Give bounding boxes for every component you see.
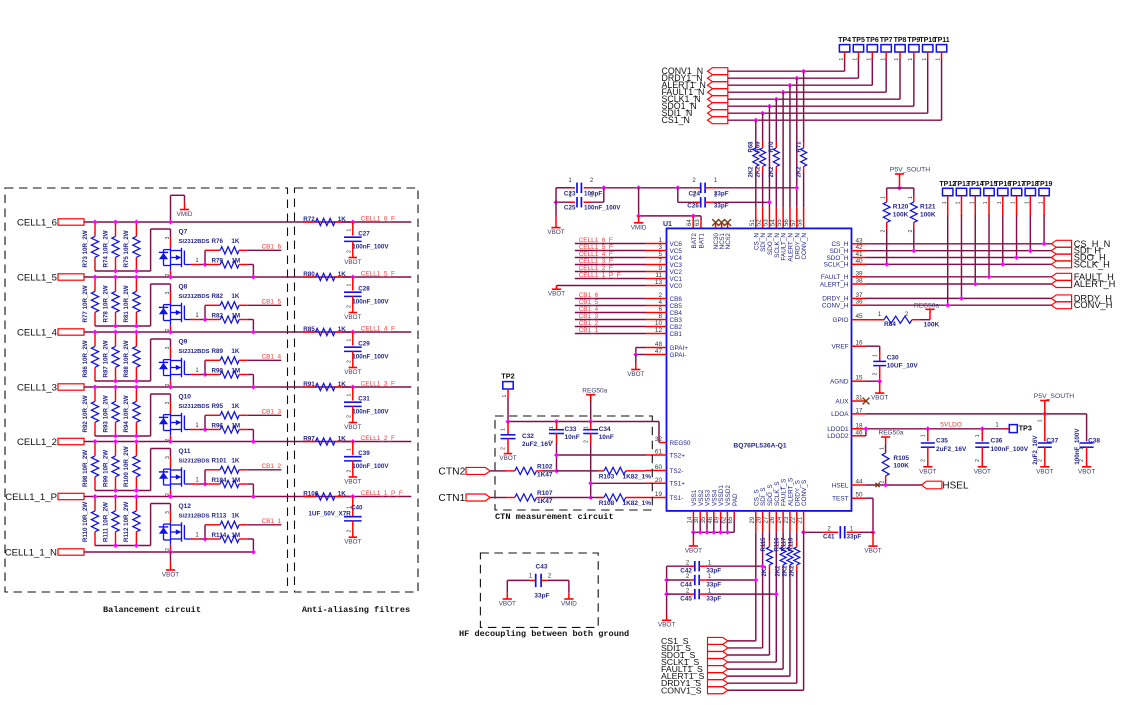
capacitor C38 100nF_100V (1086, 440, 1088, 442)
svg-text:R120: R120 (893, 204, 909, 211)
svg-text:2K2: 2K2 (769, 166, 775, 178)
svg-text:R98 10R_2W: R98 10R_2W (82, 450, 89, 487)
capacitor C39 (352, 442, 354, 456)
pin CS_H (43) (852, 243, 867, 245)
junction R74 top (113, 220, 118, 225)
pin LDOD1 (18) (852, 428, 867, 430)
wire CS1_N to TP11 (728, 119, 942, 121)
wire HSEL row (866, 484, 922, 486)
svg-text:CB1_5: CB1_5 (262, 299, 282, 306)
wire to net CB1_3 (248, 414, 282, 416)
pin HSEL (44) (852, 484, 867, 486)
svg-text:VBOT: VBOT (344, 479, 361, 486)
ground VBOT GPAI (635, 355, 637, 363)
junction VMID rail (601, 185, 606, 190)
resistor R80 1K (303, 276, 316, 278)
svg-text:1K: 1K (231, 512, 240, 519)
svg-text:10: 10 (655, 320, 663, 327)
wire resistor-bottom bus row 2 (95, 325, 151, 327)
junction TS1+/C34 (588, 481, 593, 486)
resistor R116 2K2 (780, 547, 786, 565)
junction C40 tap (350, 494, 355, 499)
wire R104 to CELL1_1_P (248, 483, 254, 485)
wire resistor-bottom bus row 6 (95, 545, 151, 547)
pin CB2 (10) (646, 326, 667, 328)
svg-text:Q7: Q7 (179, 229, 188, 236)
dashed box Anti-aliasing filtres (295, 188, 419, 592)
svg-text:1: 1 (583, 426, 589, 429)
svg-text:TS1-: TS1- (670, 495, 684, 502)
svg-text:HSEL: HSEL (942, 480, 969, 491)
svg-text:57: 57 (791, 219, 797, 226)
svg-text:CELL1_2_F: CELL1_2_F (579, 265, 613, 272)
svg-text:R121: R121 (920, 204, 936, 211)
wire riser DRDY_N (796, 78, 798, 207)
wire net CELL1_3 (84, 386, 353, 388)
junction resistor bus (113, 269, 118, 274)
svg-text:R96: R96 (212, 422, 224, 429)
junction R90 on CELL1_3 (251, 385, 256, 390)
svg-text:CELL1_3_F: CELL1_3_F (579, 258, 613, 265)
svg-text:CB1_5: CB1_5 (579, 299, 599, 306)
wire R96 to CELL1_2 (248, 429, 254, 431)
transistor Q9 SI2312BDS (170, 339, 172, 347)
junction R75 top (134, 220, 139, 225)
svg-text:2: 2 (881, 230, 887, 233)
svg-text:VC0: VC0 (670, 283, 683, 290)
svg-text:3: 3 (165, 402, 171, 405)
wire net CB1_4 to CB pin (575, 312, 646, 314)
wire TP16 drop (1002, 215, 1004, 264)
svg-text:C25: C25 (564, 205, 576, 212)
svg-text:2K2: 2K2 (796, 166, 802, 178)
junction R121 SDI_H (911, 248, 916, 253)
svg-text:R87 10R_2W: R87 10R_2W (102, 340, 109, 377)
svg-text:R80: R80 (303, 271, 315, 278)
svg-text:2: 2 (347, 530, 353, 533)
resistor R70 2K2 (773, 148, 779, 167)
svg-text:Q12: Q12 (179, 503, 192, 510)
svg-text:TP7: TP7 (880, 37, 893, 44)
junction gate Q8 (203, 317, 208, 322)
svg-text:100nF_100V: 100nF_100V (352, 353, 389, 360)
wire C45 to riser (707, 593, 776, 595)
wire net CELL1_4 (84, 331, 353, 333)
svg-text:23: 23 (784, 516, 790, 523)
pin LDOA (17) (852, 413, 867, 415)
junction LDOD1/LDOD2 (863, 426, 868, 431)
resistor R86 10R_2W (94, 332, 96, 346)
pin CB1 (12) (646, 333, 667, 335)
junction resistor bus (113, 324, 118, 329)
ground VBOT C36 (978, 466, 987, 468)
ground VBOT VSS (692, 532, 694, 538)
wire R90 to CELL1_3 (248, 374, 254, 376)
ground VBOT AGND (879, 381, 881, 393)
svg-text:R86 10R_2W: R86 10R_2W (82, 340, 89, 377)
resistor R85 1K (303, 331, 316, 333)
svg-text:NC62: NC62 (725, 233, 732, 250)
svg-text:1: 1 (873, 354, 879, 357)
junction resistor bus (113, 379, 118, 384)
svg-text:2: 2 (975, 459, 981, 462)
svg-text:1K82_1%: 1K82_1% (623, 500, 652, 507)
svg-text:29: 29 (750, 516, 756, 523)
svg-text:SCLK_H: SCLK_H (1074, 259, 1110, 269)
svg-text:TP19: TP19 (1036, 181, 1053, 188)
wire net CB1_1 to CB pin (575, 333, 646, 335)
svg-text:47: 47 (655, 348, 663, 355)
power VMID above Q7 (170, 195, 172, 222)
svg-text:3: 3 (658, 244, 662, 251)
junction TP19 (1042, 241, 1047, 246)
svg-text:1: 1 (956, 201, 962, 204)
wire C42/C44/C45 left rail (666, 566, 668, 614)
svg-text:2K2: 2K2 (789, 565, 795, 577)
wire VSS ground bus (692, 511, 694, 520)
wire net CELL1_5_F (343, 276, 412, 278)
wire TP15 drop (988, 215, 990, 276)
junction gate Q7 (203, 262, 208, 267)
pin BAT1 (63) (700, 220, 702, 228)
svg-text:C35: C35 (936, 438, 948, 445)
svg-text:VBOT: VBOT (547, 229, 564, 236)
wire SDO1_S to port (728, 654, 770, 656)
svg-text:C41: C41 (823, 534, 835, 541)
svg-text:CB1_4: CB1_4 (579, 306, 599, 313)
svg-text:CS1_N: CS1_N (662, 115, 690, 125)
svg-text:C38: C38 (1088, 438, 1100, 445)
junction P5V split (897, 186, 902, 191)
wire net CELL1_4_F to VC pin (575, 257, 646, 259)
svg-text:CONV1_S: CONV1_S (661, 685, 702, 695)
svg-text:5: 5 (658, 251, 662, 258)
wire REG50a drop (590, 402, 592, 422)
svg-text:45: 45 (856, 313, 864, 320)
wire CS1_S to port (728, 640, 756, 642)
pin AGND (15) (852, 380, 867, 382)
wire to net CB1_2 (248, 469, 282, 471)
junction R120 SCLK_H (884, 262, 889, 267)
power VMID C43 (568, 580, 570, 592)
resistor R108 1K82_1% (598, 497, 605, 499)
junction TP15 (987, 274, 992, 279)
junction C25 left (554, 200, 559, 205)
pin TEST (50) (852, 497, 867, 499)
port SDO_H (1051, 254, 1071, 261)
svg-text:VMID: VMID (561, 600, 577, 607)
svg-text:VBOT: VBOT (658, 622, 675, 629)
svg-text:R106: R106 (303, 490, 319, 497)
capacitor C41 33pF (804, 531, 823, 533)
resistor R111 10R_2W (115, 497, 117, 511)
resistor R92 10R_2W (94, 387, 96, 401)
svg-text:CELL1_4: CELL1_4 (17, 327, 58, 338)
resistor R76 1K (205, 249, 220, 251)
svg-text:VBOT: VBOT (864, 547, 881, 554)
capacitor C42 33pF (667, 565, 690, 567)
svg-text:SCLK_H: SCLK_H (824, 262, 849, 269)
junction TS2+/C33 (554, 453, 559, 458)
svg-text:100K: 100K (920, 212, 936, 219)
svg-text:54: 54 (770, 219, 776, 226)
svg-text:1: 1 (839, 58, 845, 61)
junction C45 left (664, 592, 669, 597)
svg-text:R81 10R_2W: R81 10R_2W (123, 285, 130, 322)
pin VC4 (5) (646, 257, 667, 259)
no-connect pins NC30 NC51 NC62 (715, 223, 717, 229)
wire C34 to TS1+ node (590, 444, 592, 498)
svg-text:1: 1 (347, 394, 353, 397)
resistor R91 1K (303, 386, 316, 388)
svg-text:10nF: 10nF (599, 434, 614, 441)
pin SDI_H (42) (852, 250, 867, 252)
svg-text:1: 1 (997, 201, 1003, 204)
svg-text:44: 44 (856, 479, 864, 486)
capacitor C45 33pF (667, 593, 690, 595)
wire C44 to riser (707, 579, 756, 581)
svg-text:BQ76PL536A-Q1: BQ76PL536A-Q1 (733, 443, 786, 450)
svg-text:C28: C28 (358, 285, 370, 292)
svg-text:10nF: 10nF (565, 434, 580, 441)
svg-text:35: 35 (701, 516, 707, 523)
wire net CELL1_6 (84, 221, 353, 223)
wire net CELL1_1_P_F (343, 496, 412, 498)
resistor R112 10R_2W (135, 497, 137, 511)
svg-text:2: 2 (920, 459, 926, 462)
svg-text:12: 12 (655, 327, 663, 334)
junction C44 riser (753, 578, 758, 583)
ground VBOT cap rail (666, 615, 668, 621)
svg-text:CB1_2: CB1_2 (262, 463, 282, 470)
junction C42 riser (760, 564, 765, 569)
wire SCLK1_S to port (728, 661, 776, 663)
ground VBOT C35 (923, 466, 932, 468)
resistor R106 1K (303, 496, 316, 498)
svg-text:100nF_100V: 100nF_100V (352, 408, 389, 415)
svg-text:61: 61 (655, 449, 663, 456)
junction VMID drop (636, 213, 641, 218)
pin TS2- (60) (646, 470, 667, 472)
wire net CB1_2 to CB pin (575, 326, 646, 328)
resistor R114 1M (205, 538, 220, 540)
wire net VMID top rail (556, 187, 575, 189)
svg-text:SI2312BDS: SI2312BDS (179, 458, 210, 464)
junction VMID on CELL1_6 (168, 220, 173, 225)
svg-text:CELL1_3_F: CELL1_3_F (361, 380, 395, 387)
junction C29 tap (350, 330, 355, 335)
svg-text:REG50a: REG50a (914, 302, 939, 309)
svg-text:2: 2 (347, 305, 353, 308)
wire to net CB1_1 (248, 524, 282, 526)
wire FAULT1_S to port (728, 668, 783, 670)
wire gate node Q8 (204, 305, 206, 319)
svg-text:LDOD2: LDOD2 (827, 433, 849, 440)
svg-text:2K2: 2K2 (755, 166, 761, 178)
junction CONV1_N riser (801, 69, 806, 74)
wire GPAI+ / GPAI- (636, 347, 646, 349)
svg-text:19: 19 (655, 491, 663, 498)
svg-text:1K47: 1K47 (537, 472, 553, 479)
wire R79 to CELL1_5 (248, 264, 254, 266)
junction FAULT1_N riser (781, 90, 786, 95)
svg-text:1: 1 (969, 201, 975, 204)
junction Q7 source on CELL1_5 (168, 275, 173, 280)
pin VC0 (13) (646, 285, 667, 287)
svg-text:51: 51 (750, 219, 756, 226)
svg-text:31: 31 (856, 395, 864, 402)
svg-text:CONV_N: CONV_N (801, 233, 808, 260)
svg-text:3: 3 (165, 456, 171, 459)
capacitor C34 10nF (590, 422, 592, 430)
junction gate Q9 (203, 372, 208, 377)
capacitor C32 2uF2_16V (507, 422, 509, 435)
pin GPAI+ (48) (646, 347, 667, 349)
svg-text:SI2312BDS: SI2312BDS (179, 404, 210, 410)
wire net CELL1_5_F to VC pin (575, 250, 646, 252)
svg-text:22: 22 (791, 516, 797, 523)
svg-text:C36: C36 (991, 438, 1003, 445)
svg-text:C40: C40 (351, 504, 363, 511)
svg-text:C33: C33 (565, 426, 577, 433)
resistor R88 10R_2W (135, 332, 137, 346)
junction C44 left (664, 578, 669, 583)
junction DRDY1_N riser (794, 76, 799, 81)
svg-text:AGND: AGND (830, 379, 849, 386)
svg-text:R105: R105 (893, 455, 909, 462)
svg-text:R110 10R_2W: R110 10R_2W (82, 502, 89, 542)
pin stub CS_N (755, 207, 757, 228)
wire SCLK1_N to TP8 (728, 98, 900, 100)
svg-text:R89: R89 (212, 348, 224, 355)
capacitor C23 100pF (556, 187, 570, 189)
svg-text:C26: C26 (687, 203, 699, 210)
svg-text:LDOA: LDOA (831, 411, 849, 418)
svg-text:R75 10R_2W: R75 10R_2W (123, 230, 130, 267)
svg-text:Q8: Q8 (179, 284, 188, 291)
svg-text:CELL1_6: CELL1_6 (17, 217, 57, 228)
svg-text:1UF_50V_X7R: 1UF_50V_X7R (308, 510, 351, 517)
capacitor C37 2uF2_16V (1044, 414, 1046, 442)
transistor Q10 SI2312BDS (170, 394, 172, 402)
svg-text:58: 58 (798, 219, 804, 226)
svg-text:1M: 1M (231, 422, 240, 429)
wire SDI1_N to TP10 (728, 112, 928, 114)
svg-text:CB5: CB5 (670, 303, 683, 310)
svg-text:ALERT_H: ALERT_H (1074, 279, 1116, 289)
junction R105/HSEL (883, 483, 888, 488)
resistor R93 10R_2W (115, 387, 117, 401)
resistor R110 10R_2W (94, 497, 96, 511)
resistor R79 1M (205, 264, 220, 266)
svg-text:1M: 1M (231, 367, 240, 374)
pin stub SCLK_N (775, 207, 777, 228)
svg-text:3: 3 (165, 511, 171, 514)
svg-text:100nF_100V: 100nF_100V (352, 463, 389, 470)
ground VBOT VC0 (556, 286, 558, 290)
svg-text:VMID: VMID (177, 211, 193, 218)
wire net CB1_3 to CB pin (575, 319, 646, 321)
svg-text:33pF: 33pF (847, 534, 862, 541)
capacitor C44 33pF (667, 579, 690, 581)
svg-text:2: 2 (658, 292, 662, 299)
svg-text:64: 64 (687, 219, 693, 226)
svg-text:VC3: VC3 (670, 262, 683, 269)
ground VBOT below Q12 (170, 552, 172, 561)
wire net CELL1_5 (84, 276, 353, 278)
svg-text:VBOT: VBOT (344, 369, 361, 376)
junction R110 top (93, 494, 98, 499)
junction SCLK1_N riser (774, 97, 779, 102)
wire SCLK_H row (866, 263, 1051, 265)
pin VC3 (7) (646, 264, 667, 266)
resistor R75 10R_2W (135, 222, 137, 236)
svg-text:1: 1 (920, 434, 926, 437)
svg-text:1: 1 (347, 448, 353, 451)
wire SDO_H row (866, 257, 1051, 259)
svg-text:CB4: CB4 (670, 310, 683, 317)
wire FAULT1_N to TP7 (728, 91, 886, 93)
svg-text:R68: R68 (749, 141, 755, 153)
svg-text:R113: R113 (212, 512, 227, 519)
svg-text:1: 1 (894, 58, 900, 61)
wire net CB1_5 to CB pin (575, 305, 646, 307)
svg-text:3: 3 (165, 347, 171, 350)
svg-text:VBOT: VBOT (499, 455, 516, 462)
wire TS1- node (591, 497, 604, 499)
junction R114 on CELL1_1_N (251, 550, 256, 555)
resistor R97 1K (303, 441, 316, 443)
svg-text:BAT2: BAT2 (691, 233, 698, 249)
junction R99 top (113, 439, 118, 444)
junction C24 on DRDY_N riser (794, 185, 799, 190)
wire C42 to riser (707, 565, 763, 567)
capacitor C35 2uF2_16V (927, 429, 929, 442)
wire TP18 drop (1029, 215, 1031, 250)
svg-text:7: 7 (658, 258, 662, 265)
junction R79 on CELL1_5 (251, 275, 256, 280)
svg-text:REG50a: REG50a (879, 429, 904, 436)
svg-text:P5V_SOUTH: P5V_SOUTH (1034, 393, 1075, 400)
wire gate node Q7 (204, 250, 206, 264)
junction R98 top (93, 439, 98, 444)
capacitor C29 (352, 332, 354, 346)
svg-text:2: 2 (583, 440, 589, 443)
wire net CELL1_6_F to VC pin (575, 243, 646, 245)
junction R83 on CELL1_4 (251, 330, 256, 335)
junction C45 riser (774, 592, 779, 597)
svg-text:R85: R85 (303, 326, 315, 333)
svg-text:55: 55 (777, 219, 783, 226)
junction Q10 source on CELL1_2 (168, 439, 173, 444)
wire TP14 drop (974, 215, 976, 284)
svg-text:R73 10R_2W: R73 10R_2W (82, 230, 89, 267)
svg-text:33pF: 33pF (534, 593, 549, 600)
svg-text:CELL1_5_F: CELL1_5_F (361, 270, 395, 277)
resistor R68 2K2 (753, 148, 759, 167)
svg-text:53: 53 (763, 219, 769, 226)
wire riser SCLK_N (775, 99, 777, 141)
svg-text:R77 10R_2W: R77 10R_2W (82, 285, 89, 322)
ground VBOT C40 (349, 536, 357, 538)
svg-text:CELL1_5: CELL1_5 (17, 272, 57, 283)
resistor R74 10R_2W (115, 222, 117, 236)
ground VBOT C28 (349, 312, 357, 314)
resistor R100 10R_2W (135, 442, 137, 456)
op-amp U1 BQ76PL536A-Q1 body (667, 228, 852, 511)
wire gate node Q10 (204, 415, 206, 429)
resistor R69 2K2 (760, 148, 766, 167)
